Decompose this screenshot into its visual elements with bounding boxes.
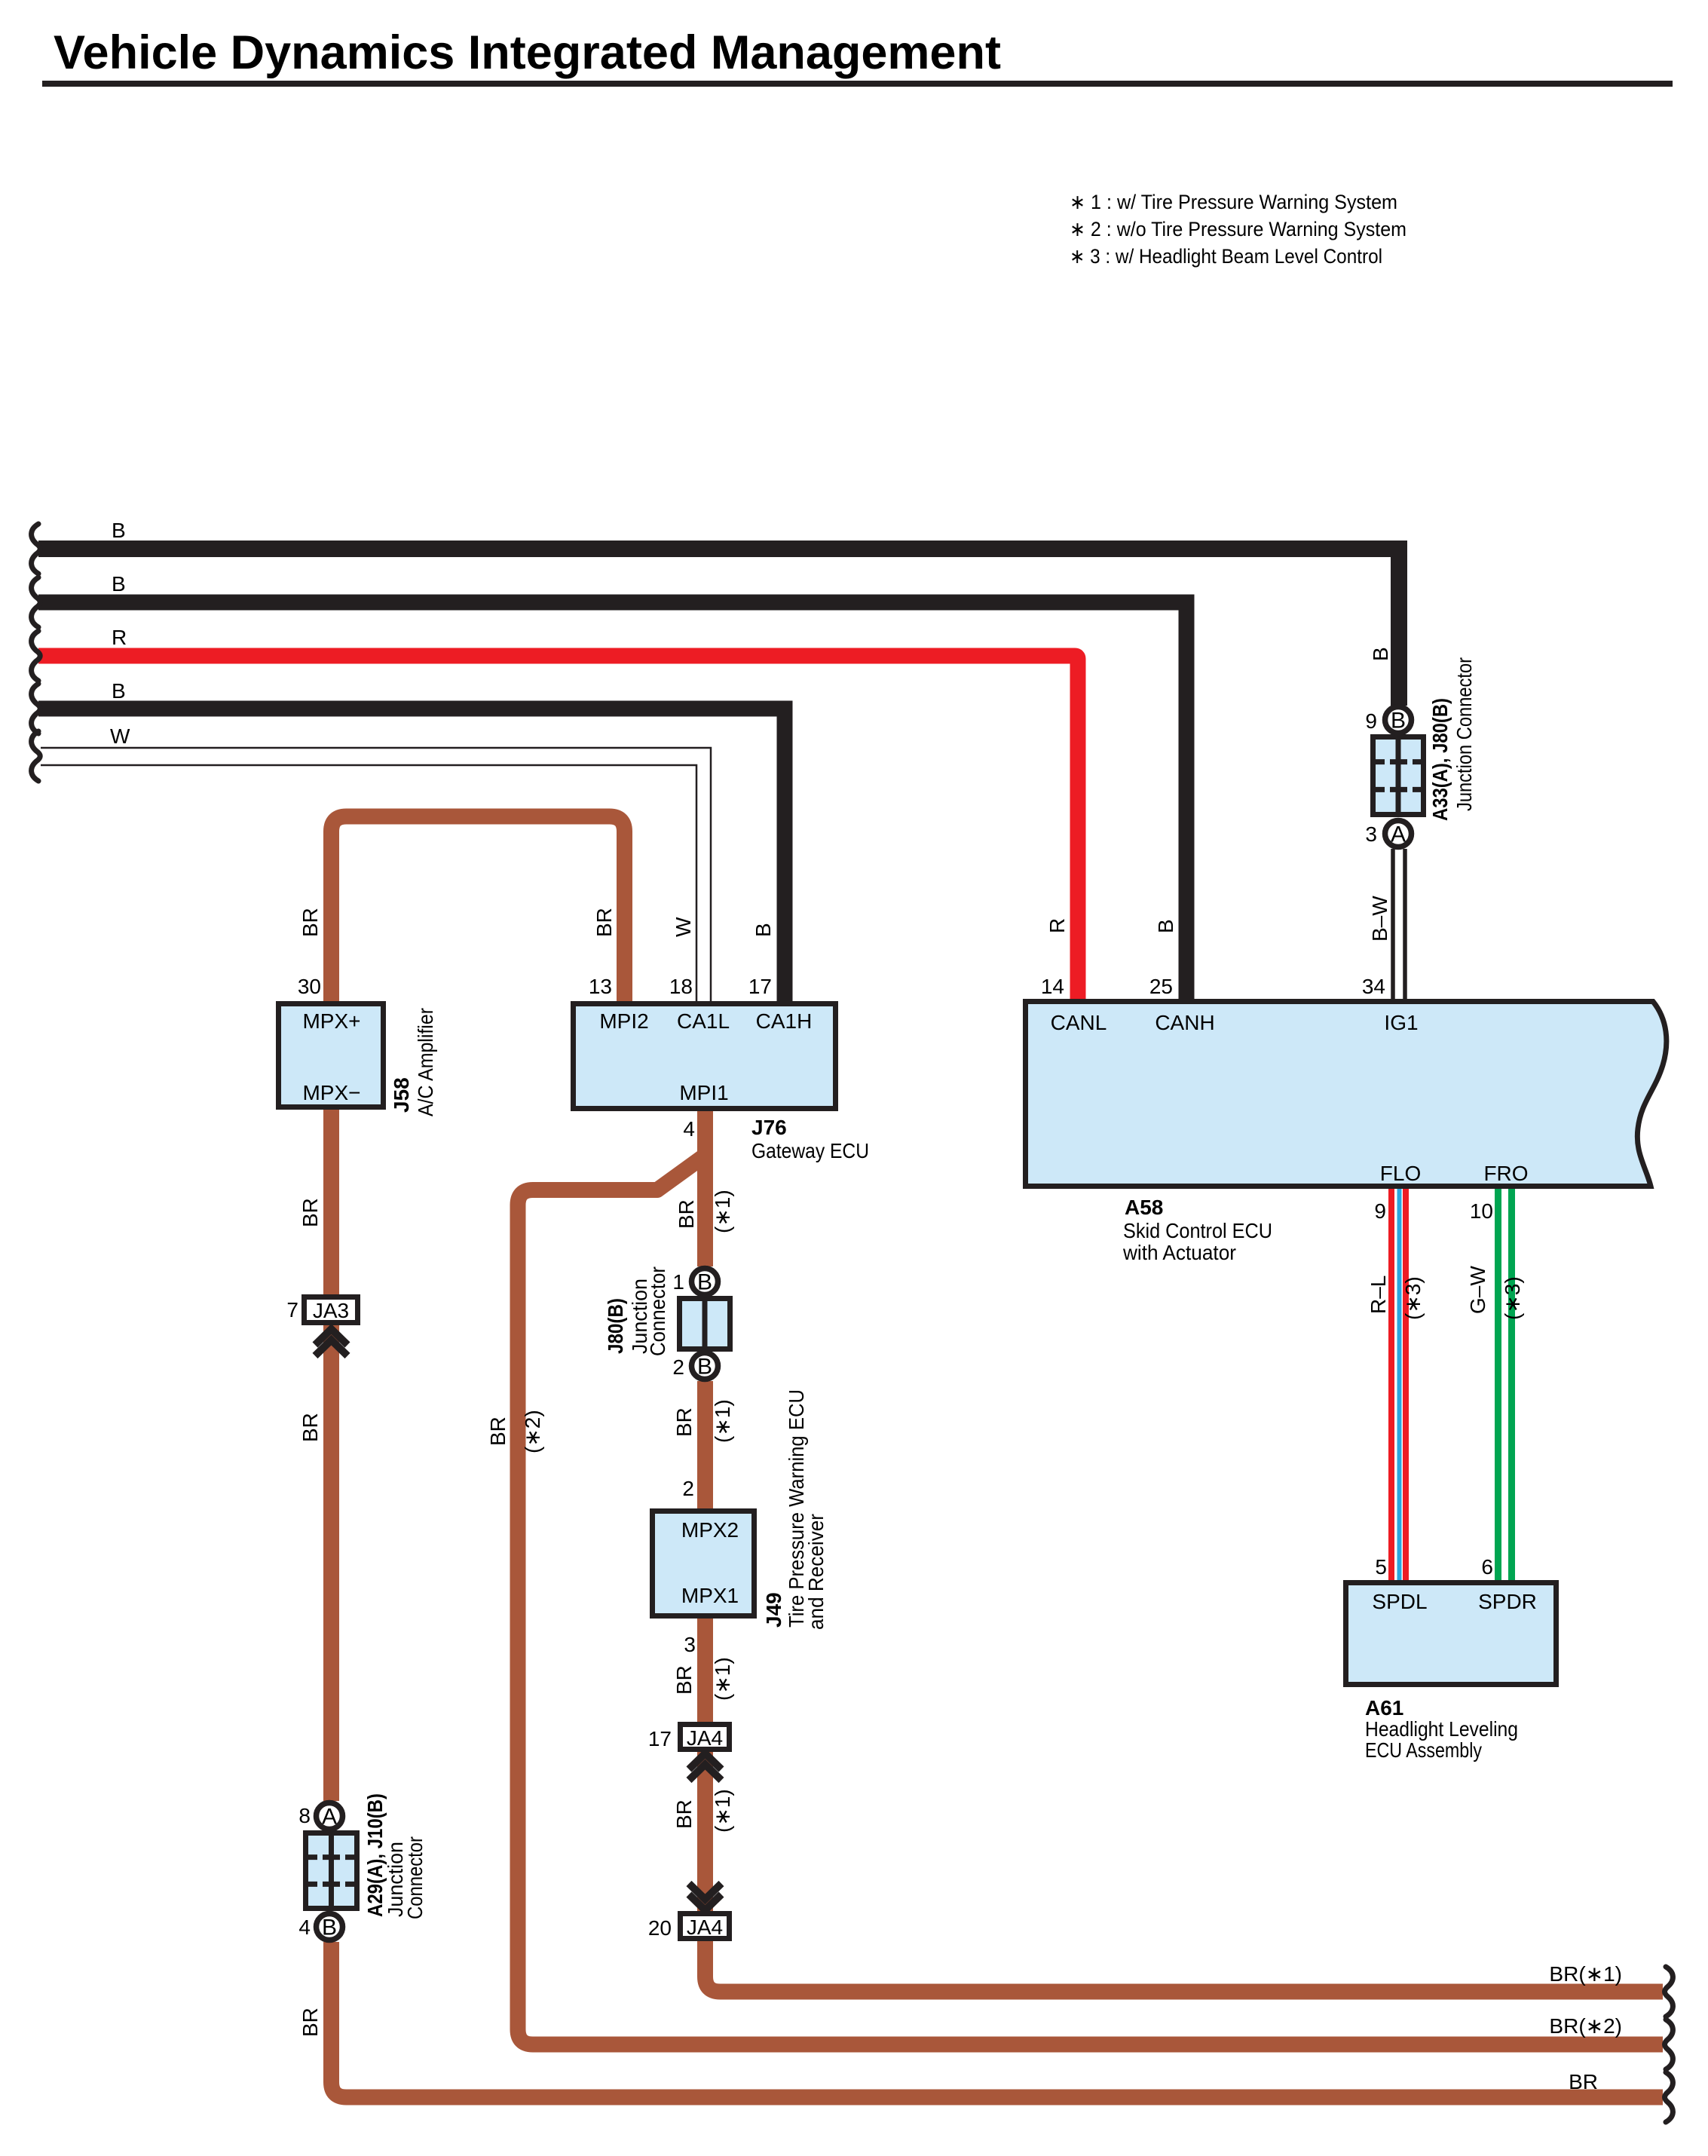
svg-text:J80(B): J80(B)	[604, 1298, 627, 1354]
svg-text:Connector: Connector	[646, 1266, 669, 1356]
svg-text:JA4: JA4	[687, 1726, 723, 1750]
svg-text:CANL: CANL	[1051, 1011, 1107, 1034]
svg-text:B: B	[112, 519, 126, 542]
svg-text:2: 2	[672, 1355, 684, 1379]
svg-text:17: 17	[648, 1727, 672, 1750]
svg-text:6: 6	[1481, 1555, 1493, 1579]
svg-text:CANH: CANH	[1155, 1011, 1214, 1034]
svg-text:BR(∗2): BR(∗2)	[1549, 2014, 1622, 2038]
svg-text:(∗3): (∗3)	[1401, 1276, 1425, 1320]
svg-text:BR: BR	[592, 908, 616, 937]
svg-text:FRO: FRO	[1483, 1162, 1528, 1185]
svg-text:A/C Amplifier: A/C Amplifier	[414, 1008, 437, 1116]
svg-text:(∗2): (∗2)	[521, 1410, 544, 1453]
svg-text:A: A	[322, 1805, 337, 1830]
svg-text:JA4: JA4	[687, 1916, 723, 1939]
svg-text:30: 30	[298, 975, 321, 998]
svg-text:B: B	[1391, 709, 1406, 733]
svg-text:B: B	[112, 572, 126, 596]
svg-text:(∗3): (∗3)	[1501, 1276, 1524, 1320]
svg-text:Vehicle Dynamics Integrated Ma: Vehicle Dynamics Integrated Management	[54, 26, 1001, 79]
svg-text:BR: BR	[298, 2007, 322, 2037]
svg-text:B: B	[1154, 919, 1177, 933]
svg-text:W: W	[672, 917, 695, 937]
svg-text:17: 17	[748, 975, 772, 998]
svg-text:MPX+: MPX+	[302, 1009, 360, 1033]
svg-text:B: B	[322, 1916, 337, 1940]
svg-text:A61: A61	[1365, 1696, 1403, 1720]
svg-text:34: 34	[1362, 975, 1385, 998]
svg-text:BR: BR	[672, 1665, 696, 1695]
svg-text:4: 4	[683, 1117, 695, 1141]
svg-text:2: 2	[682, 1477, 694, 1500]
svg-text:A58: A58	[1125, 1196, 1163, 1219]
svg-text:B–W: B–W	[1368, 896, 1391, 942]
svg-text:10: 10	[1470, 1199, 1493, 1223]
svg-text:9: 9	[1374, 1199, 1386, 1223]
svg-text:8: 8	[298, 1804, 311, 1827]
svg-text:1: 1	[672, 1270, 684, 1294]
svg-text:IG1: IG1	[1384, 1011, 1418, 1034]
svg-text:A: A	[1391, 822, 1406, 847]
svg-text:SPDL: SPDL	[1372, 1590, 1427, 1613]
svg-text:3: 3	[1365, 822, 1377, 846]
svg-text:20: 20	[648, 1916, 672, 1940]
svg-text:B: B	[751, 923, 775, 937]
svg-text:BR: BR	[672, 1799, 696, 1829]
svg-text:MPX2: MPX2	[681, 1518, 739, 1542]
svg-text:9: 9	[1365, 709, 1377, 733]
svg-text:J58: J58	[390, 1077, 413, 1113]
svg-text:Headlight Leveling: Headlight Leveling	[1365, 1717, 1518, 1741]
svg-text:J49: J49	[762, 1592, 785, 1628]
svg-text:R: R	[1045, 918, 1069, 933]
svg-text:∗ 1 : w/ Tire Pressure Warning: ∗ 1 : w/ Tire Pressure Warning System	[1070, 191, 1397, 213]
svg-text:BR: BR	[1569, 2070, 1598, 2093]
svg-text:SPDR: SPDR	[1478, 1590, 1537, 1613]
svg-text:(∗1): (∗1)	[711, 1190, 734, 1233]
svg-text:25: 25	[1149, 975, 1173, 998]
svg-text:BR(∗1): BR(∗1)	[1549, 1962, 1622, 1986]
svg-text:FLO: FLO	[1380, 1162, 1421, 1185]
svg-text:5: 5	[1375, 1555, 1387, 1579]
svg-text:B: B	[112, 679, 126, 703]
svg-text:7: 7	[286, 1298, 298, 1321]
svg-text:R–L: R–L	[1367, 1276, 1390, 1314]
svg-text:13: 13	[589, 975, 612, 998]
svg-text:CA1L: CA1L	[677, 1009, 730, 1033]
svg-text:14: 14	[1041, 975, 1064, 998]
svg-text:J76: J76	[751, 1116, 787, 1139]
svg-text:(∗1): (∗1)	[711, 1789, 734, 1833]
svg-text:MPI2: MPI2	[599, 1009, 648, 1033]
svg-text:BR: BR	[486, 1416, 510, 1446]
svg-text:and Receiver: and Receiver	[804, 1514, 828, 1630]
svg-text:BR: BR	[672, 1407, 696, 1437]
svg-text:Junction Connector: Junction Connector	[1452, 657, 1476, 811]
svg-text:BR: BR	[675, 1199, 698, 1229]
svg-text:(∗1): (∗1)	[711, 1657, 734, 1701]
svg-text:BR: BR	[298, 1413, 322, 1442]
svg-text:3: 3	[684, 1633, 696, 1656]
svg-text:with Actuator: with Actuator	[1122, 1241, 1236, 1264]
svg-text:18: 18	[669, 975, 693, 998]
svg-text:∗ 3 : w/ Headlight Beam Level: ∗ 3 : w/ Headlight Beam Level Control	[1070, 245, 1382, 268]
svg-text:A33(A), J80(B): A33(A), J80(B)	[1428, 698, 1452, 821]
svg-text:CA1H: CA1H	[756, 1009, 813, 1033]
svg-text:B: B	[697, 1355, 712, 1380]
svg-text:MPI1: MPI1	[679, 1081, 728, 1104]
svg-text:Connector: Connector	[403, 1836, 427, 1919]
svg-text:Gateway ECU: Gateway ECU	[751, 1139, 869, 1162]
svg-text:4: 4	[298, 1916, 311, 1939]
svg-text:MPX1: MPX1	[681, 1584, 739, 1607]
svg-text:B: B	[697, 1270, 712, 1295]
svg-text:Skid Control ECU: Skid Control ECU	[1123, 1219, 1272, 1242]
svg-text:B: B	[1369, 647, 1392, 661]
svg-text:W: W	[110, 724, 130, 748]
svg-text:R: R	[112, 626, 127, 649]
svg-text:∗ 2 : w/o Tire Pressure Warnin: ∗ 2 : w/o Tire Pressure Warning System	[1070, 218, 1406, 240]
svg-text:G–W: G–W	[1466, 1266, 1489, 1314]
svg-text:BR: BR	[298, 908, 322, 937]
svg-text:MPX−: MPX−	[302, 1081, 360, 1104]
svg-text:JA3: JA3	[313, 1299, 349, 1322]
svg-text:(∗1): (∗1)	[711, 1399, 734, 1443]
svg-text:BR: BR	[298, 1198, 322, 1227]
svg-text:ECU Assembly: ECU Assembly	[1365, 1738, 1482, 1762]
